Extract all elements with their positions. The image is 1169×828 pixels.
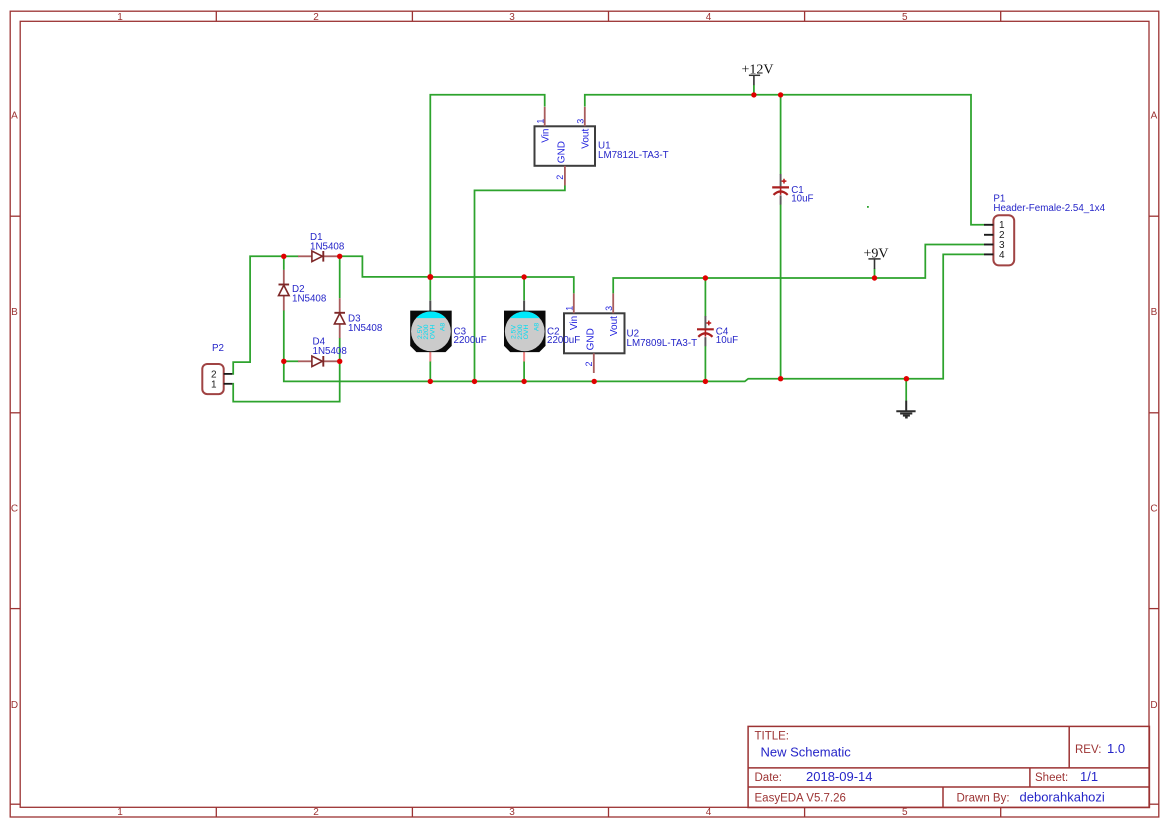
svg-text:Date:: Date: [755,772,783,784]
C4 negative plate [698,333,712,337]
svg-text:5: 5 [902,12,908,23]
node C1 bottom [778,376,783,381]
svg-text:C: C [11,504,18,515]
node C4 bottom [703,379,708,384]
P1 pin 1 [984,224,993,226]
svg-text:1N5408: 1N5408 [348,323,383,334]
wire C2 bottom stub [523,361,525,381]
C4 negative pin [704,337,706,346]
wire D1 cathode to node D [337,255,340,257]
+12V flag bar [749,74,760,76]
wire P2 pin 2 to bridge node A [232,256,283,374]
svg-text:EasyEDA V5.7.26: EasyEDA V5.7.26 [755,793,846,805]
wire +9V flag stub green part [874,269,876,279]
D1 cathode pin [324,255,338,257]
svg-text:P2: P2 [212,343,224,354]
svg-text:REV:: REV: [1075,744,1101,756]
D3 anode pin [339,324,341,338]
P2 pin 1 [224,383,233,385]
svg-text:D: D [1150,700,1157,711]
wire raw DC horizontal to U2 Vin [430,277,574,293]
wire C3 top stub [429,277,431,300]
diode D3 [334,298,382,338]
node B [281,359,286,364]
diode D2 [279,270,327,311]
D2 cathode pin [283,270,285,284]
svg-text:LM7812L-TA3-T: LM7812L-TA3-T [598,150,669,161]
connector P2 [202,343,232,394]
D2 anode pin [283,296,285,311]
U2 pin 2 GND [593,353,595,373]
+9V flag stub [874,259,876,269]
regulator U2 LM7809L-TA3-T [564,293,697,373]
svg-text:Header-Female-2.54_1x4: Header-Female-2.54_1x4 [993,203,1105,214]
svg-text:2: 2 [584,361,594,366]
svg-text:5: 5 [902,807,908,818]
connector P1 [984,194,1106,266]
svg-text:1: 1 [117,12,123,23]
node +9V flag [872,275,877,280]
D1 anode pin [298,255,312,257]
svg-text:New Schematic: New Schematic [761,745,852,760]
wire U1 GND route [475,186,565,382]
D4 anode pin [298,360,312,362]
wire C1 bottom branch [780,204,782,378]
svg-text:GND: GND [557,141,568,163]
node C3 bottom [428,379,433,384]
C3 body photo [410,311,452,353]
U1 pin 1 Vin [544,107,546,126]
ground [896,401,915,418]
D1 body [312,251,323,262]
+12V flag stub [753,75,755,85]
wire C1 top branch [780,95,782,175]
wire +12V flag stub green part [753,85,755,95]
node +12V flag [751,92,756,97]
node U2 gnd rail [592,379,597,384]
D3 cathode pin [339,298,341,312]
C2 top pin [523,301,525,312]
C4 positive pin [704,316,706,328]
svg-text:Vin: Vin [569,316,580,330]
svg-text:1N5408: 1N5408 [313,346,348,357]
D3 body [334,313,345,324]
wire C4 top stub [704,278,706,317]
wire D2 to node B [283,310,285,361]
wire +9V net U2 Vout to P1 pin 3 [613,245,984,294]
U1 pin 2 GND [564,166,566,186]
svg-text:Vout: Vout [581,129,592,149]
svg-text:TITLE:: TITLE: [755,731,790,743]
svg-text:3: 3 [604,306,614,311]
svg-text:2: 2 [313,12,319,23]
D4 cathode pin [324,360,340,362]
wire node A to D1 anode [284,255,299,257]
wire node D to D3 [339,256,341,298]
svg-text:GND: GND [586,328,597,350]
svg-text:Drawn By:: Drawn By: [957,793,1010,805]
C3 top pin [429,301,431,312]
svg-text:C: C [1150,504,1157,515]
svg-text:B: B [1151,307,1158,318]
node C [337,359,342,364]
svg-text:3: 3 [509,807,515,818]
node C1 top [778,92,783,97]
svg-text:2: 2 [313,807,319,818]
C1 negative pin [780,195,782,204]
svg-text:OVH: OVH [523,325,530,340]
svg-text:Vin: Vin [540,129,551,143]
svg-text:OVH: OVH [429,325,436,340]
node raw DC junction [427,274,433,280]
regulator U1 LM7812L-TA3-T [535,107,669,186]
P2 pin 2 [224,373,233,375]
svg-text:Vout: Vout [609,316,620,336]
C1 plus mark [782,179,787,184]
diode D4 [298,337,347,367]
P1 pin 2 [984,234,993,236]
svg-text:Sheet:: Sheet: [1035,772,1068,784]
wire ground rail [284,254,984,381]
title block [748,726,1149,807]
svg-text:4: 4 [999,250,1005,261]
svg-text:10uF: 10uF [791,193,813,204]
svg-text:1.0: 1.0 [1107,741,1125,756]
svg-text:2200uF: 2200uF [454,335,487,346]
wire C3 bottom stub [429,361,431,381]
wire node B to D4 anode [284,360,299,362]
capacitor C1 [772,174,813,205]
C2 bottom pin [523,352,525,362]
P2 body [202,364,223,394]
C1 positive pin [780,174,782,187]
svg-text:1: 1 [117,807,123,818]
wire top-left raw DC: D1 cathode to U1 Vin [340,256,431,277]
wire node A to D2 [283,256,285,270]
C2 body photo [504,311,546,353]
wire raw DC vertical and U1 Vin branch [430,95,544,277]
power flag +9V [863,246,888,269]
U2 pin 1 Vin [573,293,575,313]
svg-text:A8: A8 [534,323,541,332]
svg-text:3: 3 [576,119,586,124]
D4 body [312,356,323,367]
capacitor C2 (photo) [504,301,580,362]
node A [281,254,286,259]
capacitor C4 [697,316,738,346]
U2 body [564,313,625,353]
wire ground symbol stub [905,379,907,401]
node C2 bottom [521,379,526,384]
svg-text:10uF: 10uF [716,335,738,346]
C1 negative plate [774,191,788,195]
stray green speck [867,206,869,208]
C3 bottom pin [429,352,431,362]
svg-text:1N5408: 1N5408 [310,242,345,253]
node D [337,254,342,259]
wire +12V from U1 Vout to P1 pin 1 [585,95,984,225]
svg-text:D: D [11,700,18,711]
svg-text:2200uF: 2200uF [547,335,580,346]
svg-text:2018-09-14: 2018-09-14 [806,769,873,784]
svg-text:deborahkahozi: deborahkahozi [1020,790,1105,805]
node C4 top [703,275,708,280]
wire C2 top stub [523,277,525,300]
wire D3 to node C [339,338,341,362]
svg-text:1/1: 1/1 [1080,769,1098,784]
svg-text:2: 2 [555,175,565,180]
P1 body [993,215,1014,265]
power flag +12V [741,62,773,85]
U2 pin 3 Vout [612,293,614,313]
+9V flag bar [868,258,880,260]
C4 positive plate [697,328,714,330]
svg-text:4: 4 [706,807,712,818]
diode D1 [298,232,345,262]
P1 pin 4 [984,253,993,255]
svg-text:1N5408: 1N5408 [292,294,327,305]
svg-text:4: 4 [706,12,712,23]
svg-text:1: 1 [536,119,546,124]
svg-text:1: 1 [565,306,575,311]
junction dots [281,92,909,384]
D2 body [279,285,290,296]
U1 body [535,126,596,166]
svg-text:1: 1 [211,380,217,391]
C1 positive plate [772,186,789,188]
C4 plus mark [706,321,711,326]
wire C4 bottom stub [704,346,706,381]
U1 pin 3 Vout [584,107,586,126]
svg-text:3: 3 [509,12,515,23]
node ground symbol [904,376,909,381]
node C2 top [521,274,526,279]
wire P2 pin 1 to bridge node C [232,361,339,401]
capacitor C3 (photo) [410,301,487,362]
svg-text:A: A [11,111,18,122]
svg-text:B: B [11,307,18,318]
node U1 gnd rail [472,379,477,384]
svg-text:A8: A8 [440,323,447,332]
svg-text:LM7809L-TA3-T: LM7809L-TA3-T [627,338,698,349]
P1 pin 3 [984,244,993,246]
svg-text:A: A [1151,111,1158,122]
